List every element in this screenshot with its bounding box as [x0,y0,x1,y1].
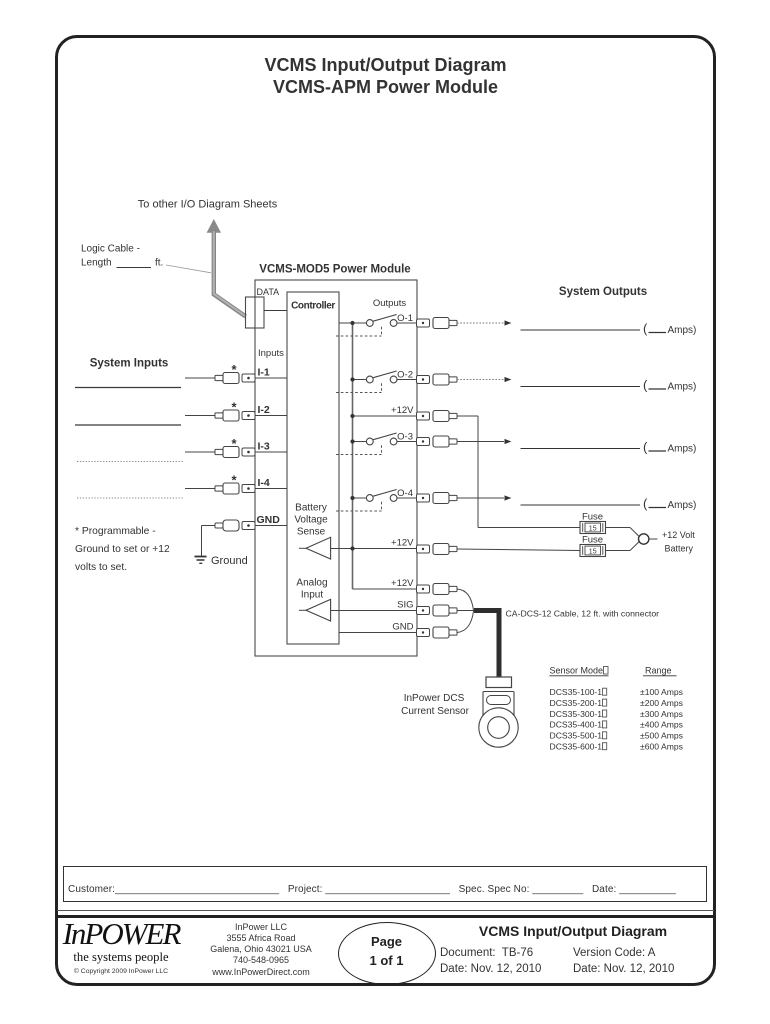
svg-text:* Programmable -: * Programmable - [75,526,156,537]
svg-text:±600 Amps: ±600 Amps [640,742,683,752]
svg-text:(: ( [643,378,648,393]
svg-text:InPower DCS: InPower DCS [404,693,465,704]
svg-text:Ground to set or +12: Ground to set or +12 [75,544,170,555]
svg-text:Current Sensor: Current Sensor [401,706,469,717]
svg-text:+12 Volt: +12 Volt [662,530,695,540]
svg-text:System Inputs: System Inputs [90,358,169,370]
svg-text:O-3: O-3 [397,432,413,443]
svg-text:Amps): Amps) [668,500,697,511]
svg-text:±300 Amps: ±300 Amps [640,709,683,719]
svg-text:Range: Range [645,666,672,676]
svg-text:I-4: I-4 [258,477,270,489]
svg-text:Amps): Amps) [668,444,697,455]
svg-text:O-1: O-1 [397,313,413,324]
svg-text:Ground: Ground [211,555,248,567]
svg-text:System Outputs: System Outputs [559,286,647,298]
svg-text:ft.: ft. [155,258,163,269]
svg-text:Sensor Model: Sensor Model [550,666,606,676]
svg-text:Voltage: Voltage [294,515,328,526]
svg-text:Battery: Battery [295,503,327,514]
svg-text:DCS35-300-1: DCS35-300-1 [550,709,603,719]
svg-text:+12V: +12V [391,538,414,549]
svg-text:DATA: DATA [257,287,280,297]
svg-text:Amps): Amps) [668,382,697,393]
svg-text:Logic Cable -: Logic Cable - [81,244,140,255]
svg-text:VCMS Input/Output Diagram: VCMS Input/Output Diagram [265,55,507,75]
svg-text:Analog: Analog [296,578,327,589]
svg-text:Length: Length [81,258,112,269]
svg-text:+12V: +12V [391,578,414,589]
svg-text:DCS35-400-1: DCS35-400-1 [550,720,603,730]
svg-text:(: ( [643,321,648,336]
svg-text:DCS35-600-1: DCS35-600-1 [550,742,603,752]
svg-text:volts to set.: volts to set. [75,562,127,573]
svg-text:Inputs: Inputs [258,348,284,359]
svg-text:Sense: Sense [297,527,326,538]
svg-text:15: 15 [589,548,597,555]
svg-text:DCS35-200-1: DCS35-200-1 [550,698,603,708]
svg-text:I-3: I-3 [258,441,270,453]
svg-text:GND: GND [392,622,413,633]
svg-text:CA-DCS-12 Cable, 12 ft. with c: CA-DCS-12 Cable, 12 ft. with connector [506,609,660,619]
svg-text:Amps): Amps) [668,325,697,336]
svg-text:DCS35-500-1: DCS35-500-1 [550,731,603,741]
svg-text:I-1: I-1 [258,367,270,379]
svg-text:SIG: SIG [397,600,413,611]
svg-text:GND: GND [257,514,281,526]
svg-text:15: 15 [589,525,597,532]
svg-text:I-2: I-2 [258,404,270,416]
svg-text:O-2: O-2 [397,370,413,381]
svg-text:±100 Amps: ±100 Amps [640,687,683,697]
svg-text:To other I/O Diagram Sheets: To other I/O Diagram Sheets [138,199,278,211]
svg-text:±500 Amps: ±500 Amps [640,731,683,741]
svg-text:Input: Input [301,590,323,601]
svg-text:±400 Amps: ±400 Amps [640,720,683,730]
svg-text:(: ( [643,440,648,455]
svg-text:(: ( [643,496,648,511]
svg-text:Outputs: Outputs [373,298,407,309]
svg-text:Controller: Controller [291,301,335,312]
svg-text:+12V: +12V [391,405,414,416]
svg-text:VCMS-MOD5 Power Module: VCMS-MOD5 Power Module [259,264,410,276]
svg-text:DCS35-100-1: DCS35-100-1 [550,687,603,697]
svg-text:O-4: O-4 [397,488,413,499]
svg-text:Battery: Battery [665,544,694,554]
svg-text:VCMS-APM Power Module: VCMS-APM Power Module [273,77,498,97]
svg-text:±200 Amps: ±200 Amps [640,698,683,708]
